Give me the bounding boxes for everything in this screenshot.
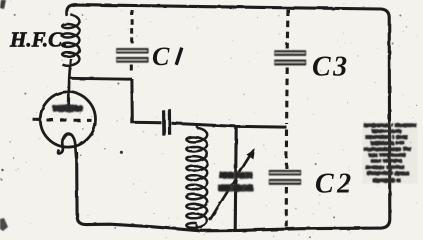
arrow (variable tuning) <box>210 149 256 221</box>
capacitor C1 plates <box>116 48 148 63</box>
label H.F.C. <box>9 28 67 52</box>
svg-text:H.F.C.: H.F.C. <box>9 28 67 52</box>
svg-text:C2: C2 <box>315 169 355 200</box>
label C2 <box>315 169 355 200</box>
label C1 <box>152 42 182 71</box>
wire: outer loop (top, right, bottom, left return to filament) <box>67 5 390 231</box>
scan smudge bottom-left <box>0 218 8 231</box>
capacitor grid condenser left plate <box>162 110 165 135</box>
wire: dashed vertical C3/C2 branch <box>286 10 290 49</box>
wire: tuning coil bottom tail <box>196 224 198 230</box>
wire: grid condenser to middle rail and C2/C3 dashed branch <box>171 123 286 127</box>
smudged note text (2 lines) <box>218 172 253 192</box>
capacitor C2 plates <box>269 170 301 185</box>
inductor H.F.C. choke coil <box>62 15 79 66</box>
vacuum tube plate (smudged label) <box>52 104 83 112</box>
capacitor grid condenser right plate <box>168 109 171 135</box>
wire: dashed link below C1 <box>130 65 133 74</box>
battery B (smudged cell text block) <box>363 122 418 184</box>
svg-text:C3: C3 <box>312 52 350 83</box>
wire: tuning coil top tail <box>196 125 198 128</box>
label C3 <box>312 52 350 83</box>
svg-text:C: C <box>152 42 170 71</box>
wire: C1 branch down then right to grid condenser <box>132 79 162 123</box>
wire: vertical return of mid branch <box>235 127 236 231</box>
inductor L tuning coil <box>186 128 207 228</box>
wire: dashed link above C1 <box>130 10 133 47</box>
vacuum tube grid (dashed) <box>33 118 92 122</box>
vacuum tube filament <box>58 134 76 158</box>
capacitor C3 plates <box>274 50 306 65</box>
scan corner mark top-left <box>0 0 6 9</box>
vacuum tube V1 envelope <box>40 92 95 147</box>
wire: plate junction to C1 branch <box>69 77 132 81</box>
stray dot <box>120 151 123 154</box>
wire: choke bottom to tube plate lead <box>69 59 71 107</box>
